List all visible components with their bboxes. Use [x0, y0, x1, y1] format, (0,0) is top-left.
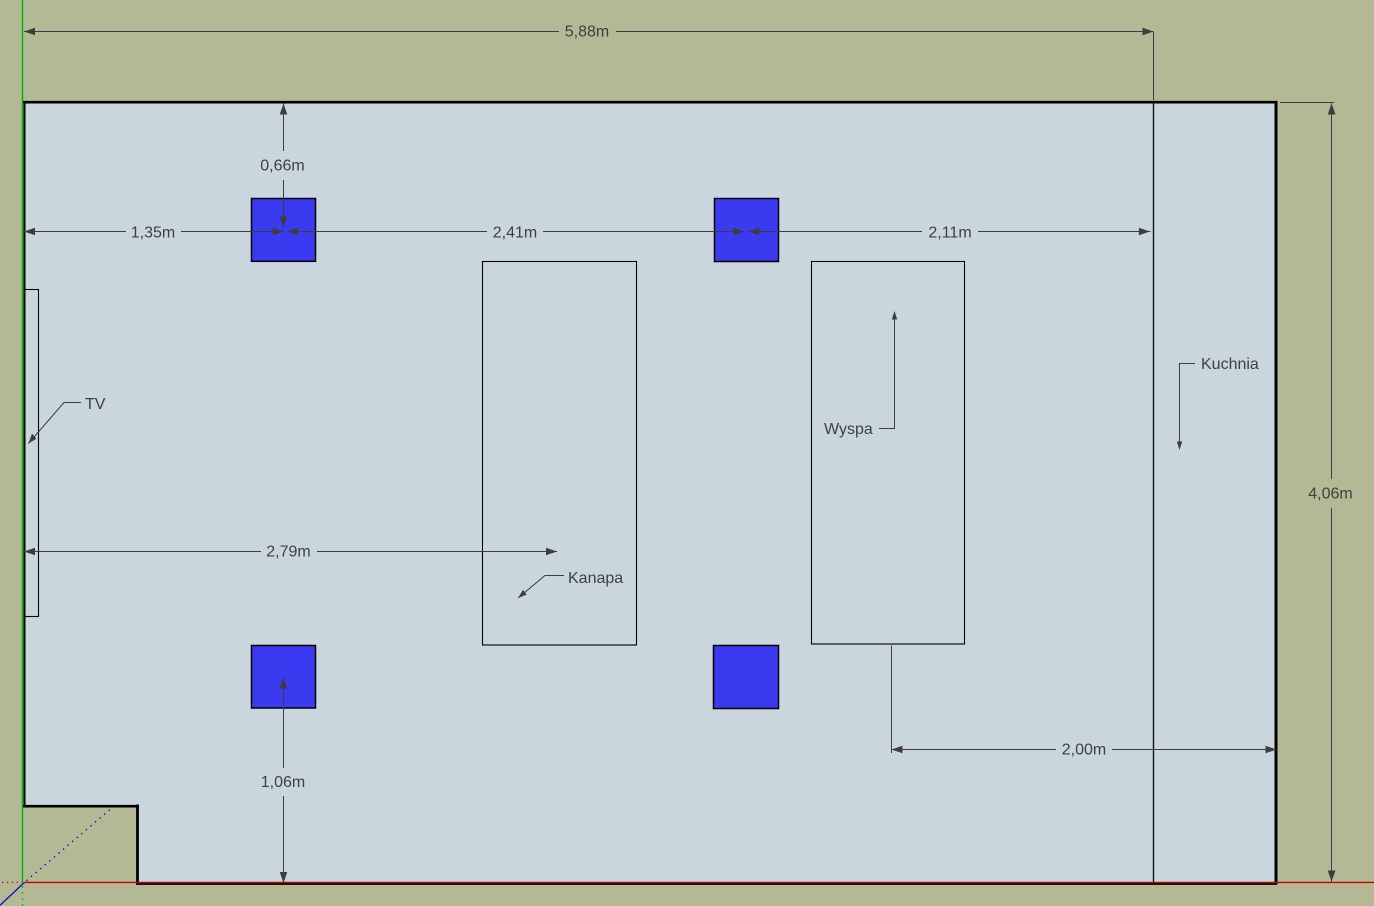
- arrow 2,41m left: [287, 228, 298, 236]
- svg-text:Kuchnia: Kuchnia: [1201, 356, 1259, 373]
- TV rectangle: [25, 290, 39, 617]
- blue axis: [0, 808, 112, 906]
- Wyspa rectangle: [812, 262, 965, 645]
- svg-text:4,06m: 4,06m: [1308, 486, 1352, 503]
- svg-text:2,11m: 2,11m: [928, 225, 971, 242]
- dimension 1,35m: [24, 231, 284, 233]
- arrow 0,66m up: [280, 104, 288, 115]
- dimension 4,06m: [1280, 103, 1334, 882]
- arrow 2,41m right: [733, 228, 744, 236]
- svg-text:Wyspa: Wyspa: [824, 421, 873, 438]
- dimension 2,79m: [24, 551, 557, 553]
- Kanapa rectangle: [483, 262, 637, 646]
- svg-text:Kanapa: Kanapa: [568, 570, 623, 587]
- svg-text:2,00m: 2,00m: [1062, 742, 1106, 759]
- arrow 2,00m left: [892, 746, 903, 754]
- svg-text:2,79m: 2,79m: [266, 544, 310, 561]
- speaker square top-right: [715, 199, 779, 262]
- arrow 0,66m down: [280, 217, 288, 228]
- arrow 4,06m up: [1328, 104, 1336, 115]
- dimension 2,11m: [748, 231, 1150, 233]
- dimension 1,06m: [283, 678, 285, 884]
- arrow 2,79m right: [546, 548, 557, 556]
- speaker square bottom-left: [252, 646, 316, 709]
- arrow 2,11m right: [1139, 228, 1150, 236]
- wall notch horizontal: [23, 805, 139, 808]
- dimension 2,41m: [288, 231, 745, 233]
- speaker square bottom-right: [714, 646, 779, 709]
- label Kanapa: [518, 570, 623, 598]
- arrow 1,35m right: [273, 228, 284, 236]
- arrow 2,11m left: [748, 228, 759, 236]
- arrow 4,06m down: [1328, 871, 1336, 882]
- wall left: [24, 101, 26, 807]
- wall top: [23, 101, 1277, 104]
- svg-text:1,06m: 1,06m: [261, 774, 305, 791]
- arrow 1,06m down: [280, 872, 288, 883]
- label Kuchnia: [1177, 356, 1259, 450]
- speaker square top-left: [252, 199, 316, 262]
- wall bottom: [136, 883, 1277, 885]
- arrow 1,35m left: [24, 228, 35, 236]
- red axis: [2, 881, 1374, 883]
- svg-text:0,66m: 0,66m: [260, 158, 304, 175]
- dimension 5,88m: [24, 32, 1154, 101]
- label Wyspa: [824, 311, 897, 438]
- arrow 2,79m left: [24, 548, 35, 556]
- dimension 2,00m: [891, 646, 1277, 754]
- svg-text:TV: TV: [85, 396, 106, 413]
- green axis: [22, 0, 24, 906]
- svg-text:1,35m: 1,35m: [131, 225, 175, 242]
- arrow 5,88m right: [1143, 28, 1154, 36]
- room floor: [24, 102, 1276, 883]
- kitchen divider wall: [1153, 102, 1155, 883]
- arrow 2,00m right: [1266, 746, 1277, 754]
- wall right: [1275, 101, 1278, 884]
- wall notch vertical: [136, 805, 139, 885]
- arrow 5,88m left: [24, 28, 35, 36]
- label TV: [28, 396, 105, 444]
- arrow 1,06m up: [280, 678, 288, 689]
- svg-text:5,88m: 5,88m: [565, 24, 609, 41]
- svg-text:2,41m: 2,41m: [493, 225, 537, 242]
- dimension 0,66m: [283, 104, 285, 228]
